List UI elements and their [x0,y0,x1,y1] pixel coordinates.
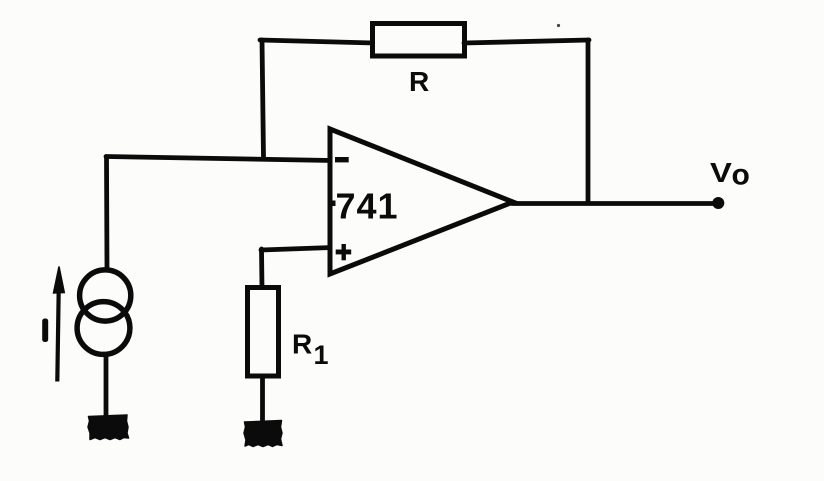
ground (below current source) [88,415,129,440]
svg-text:o: o [732,158,750,191]
ground (below R1) [244,421,282,447]
wire output [512,201,716,206]
wire noninverting input horizontal [261,248,332,251]
label I [42,319,48,343]
svg-text:V: V [710,157,733,188]
op-amp minus input symbol [335,157,349,162]
svg-text:R: R [292,329,312,360]
wire R1 to ground [260,377,265,423]
resistor R1 [248,288,279,377]
wire feedback top left segment [260,40,374,43]
wire R1 top vertical [259,249,264,288]
op-amp U1 (741) triangle [330,129,513,274]
wire current source top vertical [104,157,109,270]
wire feedback top right segment [464,40,589,43]
wire feedback left vertical [262,40,264,158]
op-amp plus input symbol [336,244,352,260]
current direction arrow [54,267,65,382]
speckle artifact [557,24,560,27]
wire current source to ground [104,354,109,418]
svg-text:R: R [409,66,429,97]
resistor R [373,24,465,57]
svg-text:1: 1 [314,340,329,370]
current source I (two overlapping circles) [77,270,131,355]
wire inverting input horizontal [106,157,332,161]
svg-text:741: 741 [336,186,399,227]
wire feedback right vertical [586,40,591,202]
op-amp left edge nub (scan mark) [330,201,336,207]
output node Vo dot [712,197,724,209]
